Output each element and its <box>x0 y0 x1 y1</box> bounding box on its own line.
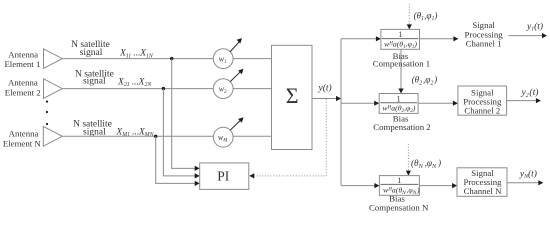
wire bias2 to channel 2 <box>418 102 453 104</box>
svg-text:(θ2 ,φ2 ): (θ2 ,φ2 ) <box>412 75 438 87</box>
svg-text:Element 2: Element 2 <box>5 87 41 97</box>
N satellite signal label row 1 <box>71 40 110 58</box>
dotted input (thetaN,phiN) <box>407 144 409 171</box>
svg-text:Compensation 2: Compensation 2 <box>373 122 430 132</box>
antenna element 2 symbol <box>44 79 63 99</box>
junction node on wire N <box>154 135 157 138</box>
svg-text:Σ: Σ <box>286 83 299 108</box>
antenna element N label <box>3 129 42 149</box>
svg-text:Antenna: Antenna <box>8 78 38 88</box>
svg-text:yN(t): yN(t) <box>519 168 537 180</box>
antenna element 1 symbol <box>44 49 63 69</box>
svg-text:y2 (t): y2 (t) <box>521 87 539 99</box>
wire biasN to channel N <box>419 185 452 187</box>
weight multiplier w1 <box>213 49 233 69</box>
junction node on wire 2 <box>162 87 165 90</box>
solid input line (theta2,phi2) <box>400 49 402 89</box>
svg-text:X21 ...X2N: X21 ...X2N <box>117 77 152 88</box>
output wire y1(t) <box>508 35 542 37</box>
junction node on wire 1 <box>170 57 173 60</box>
svg-text:Compensation N: Compensation N <box>369 202 429 212</box>
svg-text:1: 1 <box>398 30 402 39</box>
distribution bus <box>340 39 342 186</box>
svg-text:Element N: Element N <box>3 139 42 149</box>
wire bus to bias N <box>341 185 375 187</box>
svg-text:(θN ,φN ): (θN ,φN ) <box>411 158 441 170</box>
svg-text:Element 1: Element 1 <box>4 59 40 69</box>
PI controller box <box>200 163 249 190</box>
N satellite signal label row N <box>73 119 112 137</box>
signal processing channel 1 label <box>465 20 504 48</box>
svg-text:Channel 1: Channel 1 <box>466 39 502 49</box>
summation block <box>272 45 313 149</box>
vertical ellipsis between element 2 and N <box>46 101 48 126</box>
svg-text:Antenna: Antenna <box>9 129 39 139</box>
label Bias Compensation N <box>369 193 429 212</box>
weight multiplier w2 <box>213 79 233 99</box>
wire bias1 to channel 1 <box>420 38 454 40</box>
antenna element 1 label <box>4 49 40 68</box>
svg-text:1: 1 <box>397 94 401 103</box>
N satellite signal label row 2 <box>75 69 114 86</box>
svg-text:Channel 2: Channel 2 <box>464 105 500 115</box>
bias compensation box 1 <box>381 29 420 49</box>
output wire y2(t) <box>507 100 536 102</box>
weight multiplier wM <box>213 127 233 147</box>
tap wire 2 to PI <box>163 89 195 176</box>
wire antenna 2 to sum <box>62 88 271 90</box>
bias compensation box N <box>379 176 419 196</box>
dotted input (theta1,phi1) <box>408 4 410 25</box>
wire bus to bias 2 <box>341 102 374 104</box>
svg-text:y(t): y(t) <box>318 83 332 94</box>
wire antenna 1 to sum <box>62 58 271 60</box>
wire antenna N to sum <box>62 135 271 137</box>
bias compensation box 2 <box>379 94 418 114</box>
svg-text:X11 ...X1N: X11 ...X1N <box>119 49 154 60</box>
signal processing channel 2 box <box>458 86 507 115</box>
svg-text:signal: signal <box>80 48 103 58</box>
tap wire 1 to PI <box>172 59 195 169</box>
antenna element N symbol <box>43 126 62 146</box>
output wire yN(t) <box>507 182 538 184</box>
svg-text:1: 1 <box>397 176 401 185</box>
antenna element 2 label <box>5 78 41 98</box>
svg-text:(θ1,φ1): (θ1,φ1) <box>414 11 438 23</box>
svg-text:Channel N: Channel N <box>464 186 503 196</box>
label Bias Compensation 1 <box>373 51 430 69</box>
svg-text:y1(t): y1(t) <box>526 21 543 33</box>
signal processing channel N box <box>457 168 507 197</box>
dotted feedback from y(t) to PI <box>255 99 327 176</box>
svg-text:PI: PI <box>217 169 230 184</box>
output wire y(t) <box>312 98 337 100</box>
tap wire N to PI <box>156 136 195 183</box>
svg-text:signal: signal <box>83 77 106 87</box>
wire bus to bias 1 <box>341 38 376 40</box>
label Bias Compensation 2 <box>373 114 430 132</box>
